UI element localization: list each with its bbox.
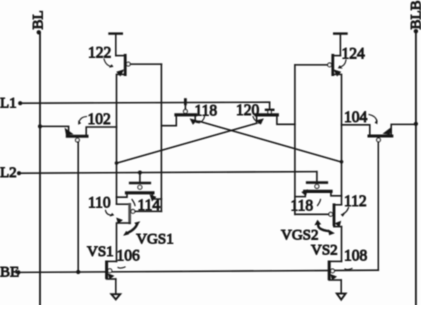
cross-coupling wire A (200, 121, 344, 163)
net L1 (0, 96, 270, 112)
transistor 112 (295, 205, 342, 227)
svg-text:106: 106 (117, 248, 141, 265)
label 120 (236, 102, 262, 124)
label 118b (291, 198, 321, 215)
transistor 118b (295, 172, 342, 197)
svg-text:122: 122 (88, 45, 111, 62)
transistor 124 (295, 55, 341, 76)
label 118 (195, 103, 218, 124)
svg-text:110: 110 (88, 195, 111, 212)
svg-text:BE: BE (0, 265, 19, 281)
wire 104 gate (377, 142, 379, 270)
svg-text:L1: L1 (0, 96, 17, 112)
net L2 (0, 165, 317, 181)
svg-text:118: 118 (291, 198, 314, 215)
svg-text:VGS1: VGS1 (136, 232, 174, 248)
svg-text:104: 104 (344, 109, 368, 126)
svg-text:BLB: BLB (409, 0, 421, 29)
wire right internal node (294, 65, 296, 214)
label 108 (344, 248, 368, 270)
svg-text:112: 112 (344, 193, 367, 210)
label 112 (341, 193, 367, 217)
svg-text:120: 120 (236, 102, 260, 119)
arrow VGS2 (314, 220, 334, 235)
ground right (337, 280, 346, 300)
wire left column lower (116, 223, 118, 261)
label 114 (132, 197, 160, 214)
svg-text:VS2: VS2 (311, 243, 338, 259)
label 106 (117, 248, 141, 269)
svg-text:VGS2: VGS2 (281, 228, 319, 244)
wire left internal node (160, 64, 162, 211)
transistor 114 (117, 173, 162, 202)
svg-text:VS1: VS1 (87, 244, 114, 260)
wire left column upper (116, 74, 118, 203)
cross-coupling wire B (115, 124, 253, 165)
label 124 (338, 46, 365, 69)
ground left (111, 279, 120, 299)
net BE (0, 265, 378, 281)
transistor 104 (342, 122, 419, 142)
bit line BL (31, 10, 47, 305)
wire 102 gate (77, 142, 79, 272)
svg-text:108: 108 (344, 248, 368, 265)
svg-text:118: 118 (195, 103, 218, 120)
label 110 (88, 195, 114, 217)
wire right column upper (341, 74, 343, 203)
bit line BLB (409, 0, 421, 305)
transistor 118 (161, 100, 199, 126)
arrow VGS1 (123, 221, 140, 236)
label 102 (78, 111, 111, 128)
label 122 (88, 45, 114, 68)
transistor 122 (116, 55, 162, 76)
transistor 110 (116, 204, 161, 224)
svg-text:124: 124 (342, 46, 366, 63)
label 104 (344, 109, 378, 126)
power rail VDD left (110, 34, 122, 56)
transistor 108 (329, 261, 341, 280)
svg-text:102: 102 (88, 111, 111, 128)
svg-text:BL: BL (31, 10, 47, 29)
transistor 120 (253, 103, 295, 125)
power rail VDD right (334, 34, 346, 56)
transistor 102 (38, 124, 117, 142)
transistor 106 (107, 261, 117, 279)
wire right column lower (341, 227, 343, 262)
svg-text:L2: L2 (0, 165, 17, 181)
